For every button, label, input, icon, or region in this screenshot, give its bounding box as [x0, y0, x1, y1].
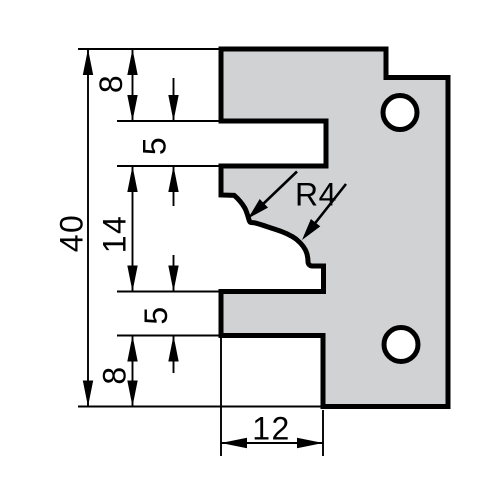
svg-text:R4: R4	[295, 177, 337, 213]
svg-text:8: 8	[97, 365, 133, 384]
svg-text:12: 12	[252, 411, 291, 447]
svg-text:5: 5	[138, 305, 174, 324]
svg-text:40: 40	[54, 214, 90, 253]
svg-text:5: 5	[137, 136, 173, 155]
svg-text:14: 14	[97, 215, 133, 254]
svg-text:8: 8	[93, 74, 129, 93]
